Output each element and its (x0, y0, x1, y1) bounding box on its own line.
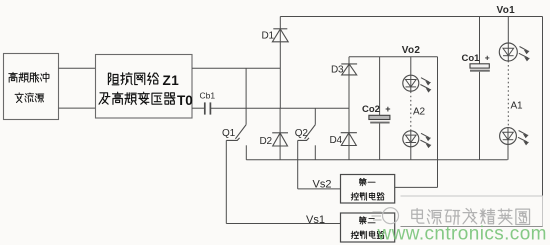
wire Q2 control vertical (Vs2) (297, 140, 299, 189)
wire common bottom rail (246, 159, 507, 161)
wire Vs2 horizontal to first control box (298, 188, 341, 190)
watermark hand icon (372, 208, 399, 224)
svg-text:www.cntronics.com: www.cntronics.com (377, 224, 547, 245)
wire A2 dotted series link (410, 92, 412, 131)
svg-text:Q1: Q1 (222, 128, 236, 139)
wire Q2 bottom stub to rail (314, 145, 316, 160)
watermark frame bottom edge (401, 226, 543, 228)
svg-text:Z1: Z1 (163, 73, 180, 88)
label 第一 (first) (359, 178, 366, 185)
watermark frame (401, 196, 543, 227)
block: HF pulse AC source box (4, 54, 59, 120)
wire A1 top lead (507, 17, 509, 44)
switch Q2 blade (305, 125, 316, 139)
svg-text:Co2: Co2 (362, 104, 380, 115)
capacitor Co1 plates (470, 64, 490, 72)
switch Q1 contact bracket (226, 138, 239, 141)
LED A2 lower (403, 131, 431, 148)
wire from first control box to output2 right edge (395, 186, 438, 188)
watermark text 电源研发精英圈 (412, 209, 424, 224)
svg-text:D2: D2 (260, 136, 273, 147)
wire Q1 control vertical (Vs1) (225, 140, 227, 223)
svg-text:T0: T0 (177, 93, 193, 108)
wire A2 bottom lead (410, 147, 412, 160)
svg-text:D4: D4 (330, 135, 343, 146)
wire A1 bottom lead (507, 145, 509, 160)
svg-text:+: + (485, 53, 490, 63)
wire output2 right edge vertical (437, 57, 439, 188)
wire Co2 bottom lead (379, 124, 381, 160)
capacitor Co2 plates (369, 115, 390, 123)
switch Q2 contact bracket (298, 138, 309, 141)
wire top between source and Z1 boxes (59, 67, 96, 69)
switch Q1 blade (235, 125, 246, 139)
svg-text:+: + (385, 104, 390, 114)
wire D1 column vertical (279, 17, 281, 109)
label 控制电路 (control circuit) 1 (351, 193, 358, 200)
block: first control circuit box (341, 175, 395, 204)
svg-text:Q2: Q2 (295, 128, 309, 139)
wire output2 top edge (349, 56, 438, 58)
wire Q1 top terminal (245, 68, 247, 125)
capacitor Cb1 (205, 102, 211, 114)
svg-text:Vo1: Vo1 (497, 5, 516, 16)
diode D2 (272, 133, 288, 146)
wire Q1 bottom stub to rail (245, 145, 247, 160)
svg-text:Vs2: Vs2 (313, 178, 332, 190)
wire D3/D4 column vertical (348, 57, 350, 160)
svg-text:D3: D3 (331, 65, 344, 76)
wire bottom rail from Cb1 to D3/D4 column (210, 107, 349, 109)
label 控制电路 (control circuit) 2 (351, 231, 358, 238)
LED A2 upper (403, 75, 431, 92)
diode D3 (341, 64, 357, 75)
diode D1 (272, 29, 288, 42)
wire Co2 top lead (379, 57, 381, 116)
svg-text:Co1: Co1 (462, 53, 481, 64)
wire Co1 top lead (479, 17, 481, 64)
svg-text:A2: A2 (413, 107, 425, 118)
wire bottom between source and Z1 boxes (59, 107, 96, 109)
wire Co1 bottom lead (479, 72, 481, 160)
svg-text:Vo2: Vo2 (402, 45, 421, 56)
LED A1 upper (499, 43, 529, 61)
wire Q2 top terminal (314, 108, 316, 125)
svg-text:Cb1: Cb1 (200, 91, 216, 101)
wire right edge vertical (542, 17, 544, 228)
wire bottom rail from Z1 box to Cb1 (192, 107, 204, 109)
label 及高频变压器 (and HF transformer) (99, 93, 110, 104)
svg-text:D1: D1 (262, 31, 275, 42)
svg-text:Vs1: Vs1 (306, 214, 325, 226)
svg-text:A1: A1 (511, 101, 523, 112)
wire top output rail from D1 to right edge (280, 16, 542, 18)
diode D4 (341, 133, 357, 146)
wire Vs1 horizontal to second control box (226, 223, 340, 225)
label 阻抗网络 (impedance network) (108, 73, 118, 85)
wire D2 column vertical (279, 108, 281, 160)
LED A1 lower (500, 128, 528, 145)
wire A1 dotted series link (507, 61, 509, 128)
label 高频脉冲 (HF pulse) (9, 72, 17, 82)
label 交流源 (AC source) (15, 93, 23, 103)
label 第二 (second) (359, 217, 366, 224)
wire A2 top lead (410, 57, 412, 76)
block: impedance network Z1 / HF transformer T0 box (96, 55, 193, 119)
wire top rail from Z1 box to D1 column (192, 67, 280, 69)
block: second control circuit box (341, 213, 395, 242)
